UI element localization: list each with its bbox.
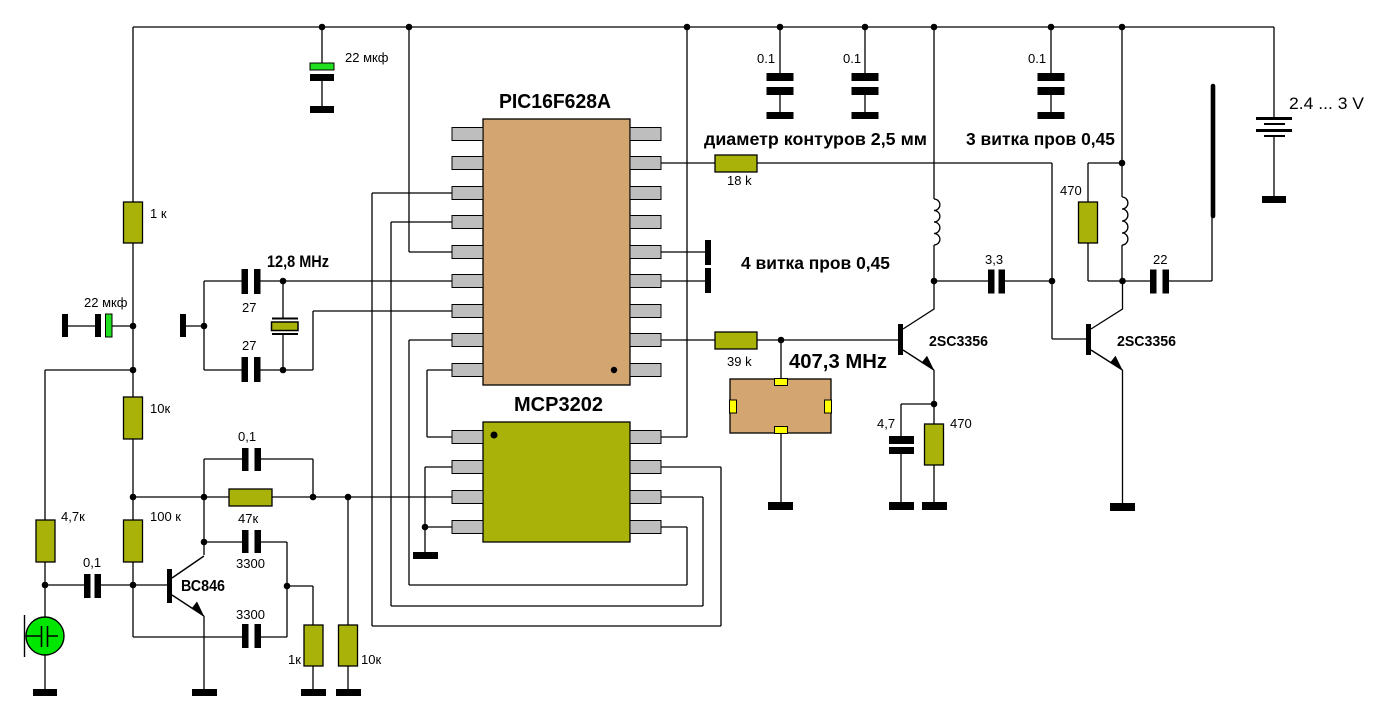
node 3300 out [284, 583, 291, 590]
node L2 bottom [1119, 278, 1126, 285]
capacitor C5 0,1 feedback [242, 448, 249, 471]
svg-text:470: 470 [950, 416, 972, 431]
svg-text:2SC3356: 2SC3356 [1117, 333, 1176, 350]
wire crystal terminal [186, 325, 204, 327]
filter Z1 SAW 407,3 MHz [730, 379, 831, 433]
node feedback right [310, 494, 317, 501]
node Q2 base feed [1049, 278, 1056, 285]
svg-text:22 мкф: 22 мкф [345, 50, 389, 65]
wire lower 3300 branch [133, 586, 287, 637]
ground R10 [922, 502, 947, 510]
wire 1k bottom to ground [312, 666, 314, 689]
node mic top [42, 582, 49, 589]
wire T1 to C2 [68, 325, 95, 327]
node collector BC846 [201, 494, 208, 501]
U1 pin1 mark dot [611, 367, 617, 373]
wire 10k2 top to audio line [347, 497, 349, 625]
svg-text:3 витка пров 0,45: 3 витка пров 0,45 [966, 129, 1115, 149]
wire MCP pin2 to gnd node [425, 467, 452, 527]
terminal T3 pin5 [705, 240, 711, 265]
antenna ANT1 [1211, 86, 1216, 216]
wire PIC pin3 loop3 [372, 193, 721, 626]
wire R1 bottom to 10k top [132, 243, 134, 397]
capacitor C4 0,1 [84, 574, 91, 598]
svg-text:10к: 10к [150, 401, 170, 416]
wire crystal vertical bus [203, 281, 205, 370]
svg-text:4,7: 4,7 [877, 416, 895, 431]
capacitor C11 0.1 [852, 73, 879, 81]
resistor R11 470 [1079, 202, 1098, 243]
ground SAW [768, 502, 793, 510]
node Q1 collector [931, 278, 938, 285]
wire SAW top pad [780, 340, 782, 379]
resistor R6 1k [304, 625, 323, 666]
ground battery [1262, 196, 1286, 203]
svg-text:12,8 MHz: 12,8 MHz [267, 252, 329, 271]
wire base node to BC846 base [133, 584, 167, 586]
node rail C10 [777, 24, 784, 31]
wire bottom 27 cap row [204, 311, 452, 370]
svg-text:диаметр контуров 2,5 мм: диаметр контуров 2,5 мм [704, 129, 927, 149]
node crystal bottom [280, 367, 287, 374]
wire 0.1 cap C stem [1050, 27, 1052, 112]
wire node(934,281) to 3,3 cap [934, 280, 1052, 282]
node rail L2 [1119, 24, 1126, 31]
node 3300 branch [201, 539, 208, 546]
wire Q1 emitter node to 4,7 cap [901, 404, 934, 502]
capacitor C15 22 [1150, 270, 1157, 294]
terminal T4 pin6 [705, 268, 711, 293]
resistor R10 470 [925, 424, 944, 465]
inductor L1 [934, 199, 940, 245]
node rail C1 [319, 24, 326, 31]
wire audio line to MCP pin3 [133, 496, 452, 498]
wire Q1 emitter node to 470 resistor [933, 404, 935, 502]
inductor L2 [1122, 197, 1128, 245]
svg-text:3,3: 3,3 [985, 252, 1003, 267]
node audio line left [130, 494, 137, 501]
U2 right pins [630, 431, 661, 534]
wire 10k2 bottom to ground [347, 666, 349, 689]
wire BC846 collector vertical [203, 459, 205, 555]
svg-text:0,1: 0,1 [83, 555, 101, 570]
svg-text:3300: 3300 [236, 607, 265, 622]
svg-text:3300: 3300 [236, 556, 265, 571]
node C2 join [130, 323, 137, 330]
capacitor C13 4,7 [889, 436, 914, 444]
wire BC846 emitter to ground [203, 616, 205, 689]
svg-text:ВС846: ВС846 [181, 578, 225, 595]
node BC846 base [130, 582, 137, 589]
ground mic [33, 689, 57, 696]
wire rail corner to battery [1273, 27, 1275, 117]
capacitor C8 27 top [242, 269, 249, 294]
U1 right pins [630, 128, 661, 377]
wire PIC pin9 to MCP pin1 [427, 370, 452, 437]
transistor Q3 BC846 [167, 569, 172, 603]
capacitor C9 27 bottom [242, 357, 249, 382]
node rail C12 [1048, 24, 1055, 31]
node crystal top [280, 278, 287, 285]
svg-text:39 k: 39 k [727, 354, 752, 369]
ground R6 [301, 689, 326, 696]
resistor R8 18k [715, 155, 757, 172]
resistor R4 4,7k [36, 520, 55, 562]
capacitor C10 0.1 [767, 73, 794, 81]
wire PIC pin5r to terminal [661, 251, 705, 253]
node rail MCP VDD [684, 24, 691, 31]
resistor R7 10k [339, 625, 358, 666]
ground C13 [889, 502, 914, 510]
U2 pin1 mark dot [491, 432, 498, 439]
wire Q2 emitter to ground [1122, 370, 1124, 503]
svg-text:0.1: 0.1 [1028, 51, 1046, 66]
svg-text:27: 27 [242, 300, 256, 315]
svg-text:0.1: 0.1 [757, 51, 775, 66]
capacitor C1 22uF electrolytic [310, 63, 334, 70]
terminal T2 crystal [180, 314, 186, 337]
wire Q1 emitter tail [933, 370, 935, 404]
resistor R9 39k [715, 332, 757, 349]
wire Q1 collector [903, 281, 934, 329]
wire 470b branch [1088, 163, 1123, 281]
svg-text:2SC3356: 2SC3356 [929, 333, 988, 350]
wire 0.1 cap A stem [779, 27, 781, 112]
transistor Q2 2SC3356 [1086, 324, 1091, 355]
terminal T1 [62, 314, 68, 337]
microphone M1 [26, 617, 64, 655]
wire node(287,586) to 1k resistor [287, 586, 313, 625]
resistor R2 10k [124, 397, 143, 439]
node rail C11 [862, 24, 869, 31]
resistor R1 1k [124, 202, 143, 243]
U1 left pins [452, 128, 483, 377]
svg-text:18 k: 18 k [727, 173, 752, 188]
transistor Q1 2SC3356 [898, 324, 903, 355]
resistor R5 47k [229, 489, 272, 506]
capacitor C2 22uF [95, 314, 101, 337]
capacitor C7 3300 lower [242, 624, 249, 648]
svg-text:MCP3202: MCP3202 [514, 394, 603, 416]
wire PIC pin2 to 18k to Q2 base node [661, 163, 1052, 281]
wire MCP pin8 VDD to rail [661, 27, 687, 437]
svg-text:22 мкф: 22 мкф [84, 295, 128, 310]
wire 4,7k bottom to mic [44, 562, 46, 617]
wire MCP pin4 to gnd [425, 527, 452, 552]
svg-text:10к: 10к [361, 652, 381, 667]
resistor R3 100k [124, 520, 143, 562]
wire PIC pin6r to terminal [661, 280, 705, 282]
wire Q2 base feed [1052, 281, 1086, 339]
svg-text:1 к: 1 к [150, 206, 167, 221]
battery BT1 [1256, 117, 1292, 120]
wire top 27 cap row to PIC pin6 [204, 280, 452, 282]
svg-text:27: 27 [242, 338, 256, 353]
node L2 top [1119, 160, 1126, 167]
capacitor C6 3300 upper [242, 530, 249, 553]
svg-text:470: 470 [1060, 183, 1082, 198]
wire node(133,370) branch to 4,7k [45, 370, 133, 520]
wire node to 22 cap to antenna [1123, 217, 1213, 281]
svg-text:100 к: 100 к [150, 509, 181, 524]
wire capacitor C1 stem [321, 27, 323, 106]
svg-text:4 витка пров 0,45: 4 витка пров 0,45 [741, 253, 890, 273]
wire upper 3300 branch [204, 542, 287, 586]
node rail pin5 [406, 24, 413, 31]
wire Q2 collector [1091, 281, 1123, 329]
node Q1 emitter [931, 401, 938, 408]
capacitor C14 3,3 [988, 270, 995, 294]
svg-text:PIC16F628A: PIC16F628A [499, 91, 611, 113]
wire mic node to C4 and to base node [45, 584, 133, 586]
wire 100k bottom down to 3300 branch [132, 562, 134, 637]
wire crystal stem [282, 281, 284, 370]
node rail L1 [931, 24, 938, 31]
node crystal terminal [201, 323, 208, 330]
ground MCP [413, 552, 438, 559]
node MCP gnd [422, 524, 429, 531]
ground BC846 emitter [192, 689, 217, 696]
wire 0.1 cap B stem [864, 27, 866, 112]
wire PIC pin8 loop1 [409, 340, 687, 585]
ground Q2 emitter [1110, 503, 1135, 511]
wire PIC pin8r to 39k to Q1 base [661, 339, 898, 341]
wire PIC pin5 VDD from rail [409, 27, 452, 252]
wire coil L2 stems [1121, 163, 1123, 281]
svg-text:4,7к: 4,7к [61, 509, 85, 524]
wire mic bottom to ground [44, 655, 46, 689]
svg-text:22: 22 [1153, 252, 1167, 267]
node 10k2 top [345, 494, 352, 501]
wire SAW bottom pad to ground [780, 433, 782, 502]
capacitor C12 0.1 [1038, 73, 1065, 81]
svg-text:407,3 MHz: 407,3 MHz [789, 351, 887, 373]
svg-text:1к: 1к [288, 652, 301, 667]
wire left vertical from rail to R1 [132, 27, 134, 202]
svg-text:0.1: 0.1 [843, 51, 861, 66]
wire 0,1 feedback loop over 47k [204, 459, 313, 497]
wire 10k bottom to 100k top [132, 439, 134, 520]
node 4,7k branch [130, 367, 137, 374]
ground R7 [336, 689, 361, 696]
wire rail to coil L1 [933, 27, 935, 199]
wire battery bottom to ground [1273, 137, 1275, 196]
crystal X1 12,8 MHz [272, 319, 298, 335]
wire coil L1 bottom to node [933, 245, 935, 281]
svg-text:0,1: 0,1 [238, 429, 256, 444]
svg-text:47к: 47к [238, 511, 258, 526]
node SAW top [778, 337, 785, 344]
wire PIC pin4 loop2 [391, 222, 703, 606]
wire top power rail [133, 26, 1274, 28]
U2 left pins [452, 431, 483, 534]
wire rail to L2 node [1121, 27, 1123, 163]
svg-text:2.4 ... 3 V: 2.4 ... 3 V [1289, 94, 1365, 113]
